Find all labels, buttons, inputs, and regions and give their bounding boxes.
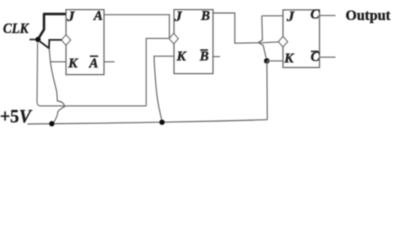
- wire CLK to junction: [30, 39, 37, 41]
- wire A output to clock U2: [104, 15, 169, 39]
- svg-text:Output: Output: [346, 8, 391, 24]
- overbar of C-bar (U3): [311, 50, 319, 52]
- overbar of B-bar (U2): [200, 49, 208, 51]
- wire K2 input and riser to rail: [154, 56, 174, 121]
- clock diamond U1: [62, 35, 71, 45]
- wire CLK node to clock diamond U1: [39, 40, 62, 48]
- wire K1 input: [50, 61, 66, 63]
- svg-text:J: J: [66, 9, 75, 25]
- stub C-bar output: [320, 56, 336, 58]
- flip-flop U1 box: [66, 10, 104, 75]
- wire riser x146 up to diamond U2 feed: [146, 38, 169, 106]
- clock diamond U2: [169, 33, 178, 43]
- wire K3 node down to rail: [266, 62, 268, 120]
- junction dot rail-K1: [49, 121, 54, 126]
- svg-text:J: J: [173, 9, 182, 25]
- wire J3 riser with hop over B wire down to K3 node: [258, 16, 266, 59]
- svg-text:B: B: [200, 8, 210, 23]
- wire C output: [320, 15, 336, 17]
- stub B-bar output: [213, 56, 220, 58]
- wire CLK node down to H1 rail: [37, 42, 146, 106]
- wire B output to clock U3: [213, 13, 279, 43]
- stub A-bar output: [104, 61, 115, 63]
- svg-text:CLK: CLK: [3, 21, 29, 37]
- overbar of A-bar (U1): [90, 55, 98, 57]
- junction dot CLK node: [35, 37, 40, 42]
- wire J3 input: [262, 15, 283, 17]
- svg-text:C: C: [310, 6, 320, 21]
- svg-text:J: J: [286, 9, 295, 25]
- svg-text:K: K: [176, 50, 188, 65]
- junction dot K3 node: [264, 58, 270, 64]
- svg-text:+5V: +5V: [0, 107, 32, 128]
- svg-text:A: A: [88, 55, 98, 70]
- junction dot rail-K2: [159, 120, 164, 125]
- wire K3 input: [267, 60, 283, 62]
- svg-text:A: A: [93, 8, 103, 23]
- flip-flop U2 box: [174, 10, 213, 74]
- clock diamond U3: [278, 37, 287, 47]
- svg-text:K: K: [67, 57, 79, 72]
- wire +5V rail: [28, 120, 268, 124]
- wire J1 to CLK node (bold): [39, 14, 66, 38]
- svg-text:K: K: [283, 52, 295, 67]
- wire K1 riser with hop squiggle down to +5V rail: [49, 48, 64, 122]
- flip-flop U3 box: [283, 10, 320, 68]
